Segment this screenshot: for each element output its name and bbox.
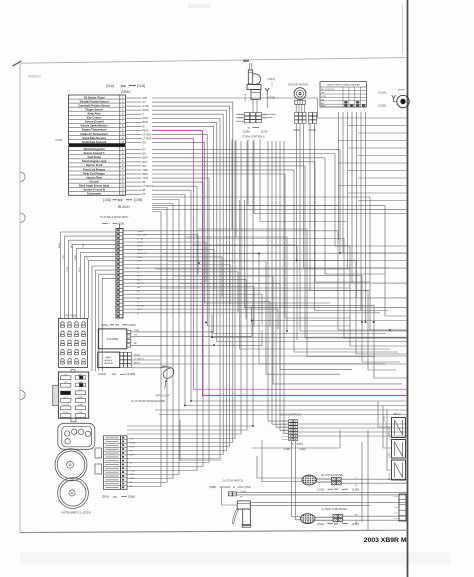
svg-text:[20A]: [20A] <box>102 495 109 499</box>
LH controls connector grid <box>289 420 293 423</box>
arrow down dashed <box>271 82 273 88</box>
svg-text:Y/BN: Y/BN <box>134 330 139 332</box>
ignition key body <box>247 85 261 90</box>
clutch lever barrel cap <box>242 525 251 528</box>
wire junction dot 16 <box>389 329 391 331</box>
wire LH controls right 1 <box>298 423 407 425</box>
svg-text:LT GN: LT GN <box>130 470 136 472</box>
wire junction dot 9 <box>339 252 341 254</box>
wire right block y163 <box>338 162 407 164</box>
svg-text:GY: GY <box>143 150 147 152</box>
bank angle sensor pin grid <box>120 352 124 356</box>
wire 30A strip left pin3 GY/O <box>69 240 117 318</box>
ignition switch wiring table <box>320 82 367 107</box>
wire 30A strip left pin5 W/BK <box>77 248 117 318</box>
wires ignition switch to grids <box>295 104 297 112</box>
svg-text:KEY SW: KEY SW <box>245 93 247 101</box>
wire black pin7 BE/O <box>126 173 142 175</box>
wire 30A strip left pin8 R/Y <box>89 261 117 319</box>
wire 30A strip left lower pin10 <box>95 270 116 371</box>
wire 30A strip left lower pin12 <box>102 278 116 371</box>
svg-text:TO FUSE & SWAP ARRY: TO FUSE & SWAP ARRY <box>100 216 129 219</box>
page right border faint inner line <box>402 4 404 54</box>
svg-text:R/GY: R/GY <box>79 266 81 272</box>
wire junction dot 7 <box>258 253 260 255</box>
wire gray pin5 Y <box>126 113 142 115</box>
svg-text:ANGLE: ANGLE <box>105 359 113 362</box>
cluster right tab 1 <box>95 448 102 458</box>
LT turn signal stem <box>315 516 333 518</box>
wire lower run b4 <box>257 456 302 478</box>
svg-text:GY: GY <box>143 102 147 104</box>
wire lower run b7 <box>296 441 301 520</box>
relay 3 box <box>392 460 406 480</box>
fuse panel left cell ACCY <box>61 398 71 402</box>
svg-text:Ground: Ground <box>90 179 100 183</box>
wire relay 2 feed <box>383 406 392 449</box>
wire junction dot 2 <box>205 322 207 324</box>
wire run below PCM long 1 <box>152 197 407 330</box>
wire nest vertical 4 to cluster <box>127 141 235 439</box>
cluster connector pin column <box>121 436 128 490</box>
wire black pin5 W/Y <box>126 165 142 167</box>
svg-text:[134B]: [134B] <box>127 372 135 376</box>
svg-text:Tachometer: Tachometer <box>87 192 101 196</box>
page bottom edge line <box>20 530 408 532</box>
flasher pins <box>127 330 131 333</box>
svg-text:[30B]: [30B] <box>129 323 136 327</box>
svg-text:Intake Air Temperature: Intake Air Temperature <box>80 132 108 136</box>
svg-text:GRAY: GRAY <box>121 90 132 94</box>
wire junction dot 1 <box>251 320 253 322</box>
relay lower strip labels <box>394 496 399 498</box>
svg-text:[22A]: [22A] <box>261 130 268 134</box>
wires into LH controls from left <box>268 141 289 421</box>
wire lower run b9 <box>361 442 363 522</box>
fuse panel right cell START <box>79 383 83 386</box>
wire nest vertical 3 to cluster <box>127 141 241 434</box>
RT turn signal connector blocks <box>331 477 336 480</box>
svg-text:Sensor Ground A: Sensor Ground A <box>84 151 105 155</box>
cluster indicator lamp 1 <box>65 431 70 436</box>
wire mesh run a4 <box>162 254 385 364</box>
wire right vertical x361 <box>360 112 362 310</box>
svg-text:>>: >> <box>118 197 124 202</box>
svg-text:[21B]: [21B] <box>352 487 359 491</box>
program wire pigtail loop <box>161 367 174 379</box>
svg-text:BK/W: BK/W <box>59 243 61 248</box>
wire lower run b6 <box>292 441 301 517</box>
ignition key top wires <box>249 63 251 70</box>
svg-text:BE/O: BE/O <box>143 174 149 176</box>
wire run y410 <box>155 409 407 411</box>
clutch lever pivot detail <box>237 502 250 504</box>
wire junction dot 10 <box>252 425 254 427</box>
wire nest vertical 1 to cluster <box>127 141 253 426</box>
punch hole arc 1 <box>21 172 26 181</box>
wire black pin11 BK <box>126 189 142 191</box>
svg-text:Injector Front: Injector Front <box>86 163 103 167</box>
svg-text:Throttle Position Sensor: Throttle Position Sensor <box>79 99 109 103</box>
wire junction dot 13 <box>190 400 192 402</box>
svg-text:#1 CYL/MAPP PROGRAM WIRE: #1 CYL/MAPP PROGRAM WIRE <box>131 400 165 403</box>
wire junction dot 3 <box>213 344 215 346</box>
wire junction dot 15 <box>373 321 375 323</box>
svg-text:RELAY: RELAY <box>394 413 402 416</box>
wire stub vertical x232 <box>231 140 233 230</box>
wire black pin4 BK/Y <box>126 161 142 163</box>
svg-text:INSTRUMENT CLUSTER: INSTRUMENT CLUSTER <box>61 511 91 515</box>
svg-text:BN/GY: BN/GY <box>71 241 73 248</box>
cluster indicator lamp 2 <box>72 429 77 434</box>
wire LT turn signal BN <box>343 515 407 517</box>
wire junction dot 11 <box>296 260 298 262</box>
svg-text:Rear Coil Primary: Rear Coil Primary <box>83 171 105 175</box>
svg-text:PARK: PARK <box>321 105 327 108</box>
svg-text:BK/W: BK/W <box>134 362 140 364</box>
svg-text:LIGHTS: LIGHTS <box>63 405 70 407</box>
svg-text:GY/BN: GY/BN <box>130 443 137 445</box>
svg-text:BK/Y: BK/Y <box>143 162 149 164</box>
ignition key lower housing <box>251 90 260 100</box>
wire clutch switch TN/GN <box>236 492 406 494</box>
wire right block y148 <box>348 147 407 149</box>
relay 1 box <box>392 418 406 438</box>
wire into clutch lever <box>222 487 238 505</box>
wire stubs out of RH grid right <box>262 113 276 115</box>
svg-text:KEY SW: KEY SW <box>389 472 391 480</box>
instrument cluster outer outline <box>58 423 95 449</box>
speedometer gauge inner ring <box>60 480 86 506</box>
svg-text:Camshaft Position Sensor: Camshaft Position Sensor <box>78 103 110 107</box>
svg-text:>>: >> <box>334 522 338 526</box>
svg-text:GY/O: GY/O <box>67 267 69 272</box>
wires below RH controls <box>248 140 338 206</box>
svg-text:W/BK: W/BK <box>75 254 77 260</box>
svg-text:Y/BK: Y/BK <box>83 243 85 248</box>
tachometer gauge inner ring <box>57 451 85 479</box>
svg-text:<: < <box>228 485 230 489</box>
wire LH controls right 4 <box>298 435 407 437</box>
page left edge line <box>19 63 21 533</box>
svg-text:LT GN/V: LT GN/V <box>143 134 152 136</box>
fuse panel top tab <box>71 370 75 372</box>
svg-text:Vehicle Speed Monitor: Vehicle Speed Monitor <box>81 124 108 128</box>
svg-text:LT GN/R: LT GN/R <box>143 138 152 140</box>
svg-text:2003 XB9R M: 2003 XB9R M <box>364 537 407 544</box>
wire black pin6 Y/BE <box>126 169 142 171</box>
svg-text:TN: TN <box>134 335 137 337</box>
svg-text:[31A]: [31A] <box>318 522 325 526</box>
wire mesh run a6 <box>174 276 402 384</box>
wire run y414.5 <box>159 414 407 416</box>
wire gray pin3 GY/W <box>126 105 142 107</box>
svg-text:Key Control: Key Control <box>87 116 102 120</box>
svg-text:Serial Data Transmit: Serial Data Transmit <box>82 140 107 144</box>
ignition switch terminal block <box>295 100 305 104</box>
svg-text:TO RH CONTROLS: TO RH CONTROLS <box>242 135 265 138</box>
svg-text:TN/GN: TN/GN <box>240 491 247 493</box>
svg-text:Sensor Ground: Sensor Ground <box>85 120 104 124</box>
svg-text:Keep Alive: Keep Alive <box>88 112 102 116</box>
cluster indicator lamp 4 <box>85 431 90 436</box>
ignition table cell marks <box>344 104 347 106</box>
wire bank angle W/GN <box>132 355 407 357</box>
wire mesh run a14 <box>240 200 390 349</box>
svg-text:HORN: HORN <box>398 89 405 91</box>
wire gray pin7 BN/O <box>126 121 142 123</box>
wire run below PCM 3 <box>127 208 167 483</box>
wire right block y185 <box>338 185 407 187</box>
svg-text:[22B]: [22B] <box>243 130 250 134</box>
wire relay 3 feed <box>387 410 392 470</box>
svg-text:[10A]: [10A] <box>103 198 111 202</box>
wire clutch lever right <box>250 501 406 503</box>
wire flasher pin4 BE <box>131 330 262 345</box>
page top edge line <box>21 58 407 64</box>
ignition connector grid 133B <box>308 112 312 115</box>
wire mesh run a10 <box>198 229 375 356</box>
svg-text:>>: >> <box>121 83 127 88</box>
svg-text:[21A]: [21A] <box>318 487 325 491</box>
PCM connector divider bar <box>69 144 126 147</box>
wire lower run b3 <box>252 430 340 448</box>
svg-text:P.FUEL: P.FUEL <box>63 412 69 414</box>
connector strip 30A outline <box>116 229 123 319</box>
wire run below PCM long 3 <box>152 209 407 211</box>
wire black pin8 Y/GN <box>126 177 142 179</box>
svg-text:KEY POSITION: KEY POSITION <box>321 89 334 91</box>
svg-text:Y/GN: Y/GN <box>63 255 65 260</box>
horn body <box>397 95 409 107</box>
svg-text:W/BN: W/BN <box>130 478 136 480</box>
connector arrow [41B] <box>102 222 108 224</box>
fuse panel left cell P.FUEL <box>61 414 71 418</box>
wire stubs into RH grid left <box>236 113 244 115</box>
instrument cluster lamp panel <box>62 426 92 447</box>
wire RT turn signal V <box>341 478 406 480</box>
fuse relay panel outline <box>58 372 88 418</box>
svg-text:[120B]: [120B] <box>378 104 386 108</box>
fuse panel left cell LIGHTS <box>61 406 71 410</box>
page top edge blob <box>243 60 249 62</box>
svg-text:(R) LT/TURN SIGNAL: (R) LT/TURN SIGNAL <box>321 474 344 477</box>
wire mesh run a11 <box>155 268 350 270</box>
wire junction dot 12 <box>184 405 186 407</box>
wire bank angle LT GN/GY <box>132 359 161 361</box>
LT rear turn signal bulb <box>300 514 315 524</box>
svg-text:[120A]: [120A] <box>378 90 386 94</box>
wire relay 1 feed <box>378 401 392 427</box>
ignition table rows <box>320 90 367 92</box>
relay lower strip <box>399 494 406 521</box>
wire right vertical x356 <box>356 112 358 298</box>
flasher box <box>98 329 127 349</box>
wire clutch switch BK <box>236 494 406 496</box>
svg-text:>>: >> <box>112 373 116 377</box>
svg-text:PK/GY: PK/GY <box>143 130 150 132</box>
wire right block y178 <box>358 177 407 179</box>
svg-text:[133B]: [133B] <box>309 128 317 132</box>
svg-text:<: < <box>248 126 250 130</box>
fuse panel bottom tab <box>71 418 76 422</box>
wire gray pin2 GY <box>126 101 142 103</box>
wire right block y133 <box>358 132 407 134</box>
svg-text:Y/GN: Y/GN <box>143 178 149 180</box>
RH controls connector grid 22 <box>244 113 250 116</box>
fuse panel right cell BRAKE <box>75 398 85 402</box>
clutch switch connector boxes <box>228 492 232 496</box>
svg-text:[39B]: [39B] <box>128 495 135 499</box>
LH controls pin labels left <box>282 420 289 422</box>
svg-text:IGNITION: IGNITION <box>389 428 391 437</box>
wire 30A strip left pin7 Y/BK <box>85 257 117 319</box>
svg-text:TOP VIEW: TOP VIEW <box>65 315 78 318</box>
fuse array fuse icons <box>61 322 64 325</box>
svg-text:OPTIO LOOP: OPTIO LOOP <box>156 396 171 398</box>
ignition key blade <box>248 70 252 84</box>
svg-text:LT GN/GY: LT GN/GY <box>143 186 154 188</box>
svg-text:LT GN/GY: LT GN/GY <box>134 358 144 360</box>
svg-text:Y/GN: Y/GN <box>130 447 135 449</box>
svg-text:BLACK: BLACK <box>118 205 130 209</box>
wire 30A strip left pin2 Y/GN <box>65 236 117 318</box>
svg-text:Engine Temperature: Engine Temperature <box>82 128 107 132</box>
wire right vertical x343 <box>342 112 344 253</box>
page corner fold mark <box>13 61 22 66</box>
fuse panel right cell HORN <box>75 406 85 410</box>
wire run below PCM 4 <box>127 212 161 487</box>
wire lower run b1 <box>180 420 222 460</box>
wire run below PCM 1 <box>127 200 179 475</box>
wire junction dot 14 <box>365 321 367 323</box>
wire right vertical x338 <box>338 112 340 240</box>
svg-text:O/W: O/W <box>130 439 134 441</box>
horn splice Y <box>392 95 396 98</box>
svg-text:BK: BK <box>143 182 147 184</box>
LT turn signal connector blocks <box>333 514 338 517</box>
svg-text:[41B]: [41B] <box>118 222 125 226</box>
wire TAN into loop <box>132 367 161 369</box>
svg-text:>>: >> <box>113 495 117 499</box>
wire 30A strip left pin4 BN/GY <box>73 244 117 318</box>
svg-text:O/W: O/W <box>263 118 267 120</box>
PCM black connector table outline <box>69 147 126 196</box>
wire lower run b5 <box>262 440 302 482</box>
fuse panel right cell ECM <box>75 391 85 395</box>
wire lower run b8 <box>367 430 369 530</box>
fuse panel left tab <box>53 385 59 405</box>
clutch lever perch body <box>237 501 250 509</box>
svg-text:V/BN: V/BN <box>130 474 135 476</box>
svg-text:[95A]: [95A] <box>245 485 252 489</box>
svg-text:>>: >> <box>334 488 338 492</box>
splice Y symbol <box>265 88 269 91</box>
svg-text:>: > <box>109 222 111 226</box>
wire mesh run a15 <box>244 200 406 308</box>
wire mesh run a12 <box>160 287 350 289</box>
wire flasher pin1 Y/BN <box>131 331 212 333</box>
wire nest vertical 2 to cluster <box>127 141 247 430</box>
fuse panel right cell BATT <box>79 376 83 379</box>
svg-text:Injector Rear: Injector Rear <box>86 175 102 179</box>
fuse array box <box>59 319 88 368</box>
punch hole arc 2 <box>21 213 26 222</box>
wire RT turn signal BK <box>341 482 406 484</box>
wire gray pin12 GN <box>126 142 142 144</box>
wire run below PCM long 2 <box>152 206 407 316</box>
svg-text:b0001xx: b0001xx <box>28 75 41 79</box>
wire bank angle BK/W <box>132 363 407 365</box>
clutch lever blade <box>232 508 238 523</box>
wire 30A strip left lower pin11 <box>99 274 116 371</box>
ignition table columns <box>342 87 344 107</box>
wire junction dot 8 <box>198 262 200 264</box>
svg-text:[30A]: [30A] <box>102 323 109 327</box>
wire gray pin1 W/B to horn area <box>126 97 142 99</box>
wire black pin1 GY switched ign <box>126 149 142 151</box>
svg-text:Switched Ignition: Switched Ignition <box>84 147 106 151</box>
wire right block y140 <box>338 140 407 142</box>
fuse panel left cell MAIN <box>60 391 70 395</box>
wire gray pin9 PK/GY magenta engine temp <box>126 129 142 131</box>
svg-text:BN/Y: BN/Y <box>143 158 149 160</box>
svg-text:START: START <box>388 451 391 458</box>
relay 2 box <box>392 440 406 459</box>
svg-text:BRAKE: BRAKE <box>78 396 85 399</box>
svg-text:[121A]: [121A] <box>268 77 276 81</box>
wire right vertical x365 <box>365 112 367 322</box>
wire black pin2 BN <box>126 153 142 155</box>
RT turn signal stem <box>317 478 332 480</box>
PCM gray connector table outline <box>69 95 126 144</box>
wire black pin3 BN/Y <box>126 157 142 159</box>
wire right block y155 <box>358 155 407 157</box>
speedometer hub <box>69 490 75 496</box>
wires key housing to RH connector <box>252 99 254 112</box>
svg-text:IGNITION SWITCH WIRING DIAGRA: IGNITION SWITCH WIRING DIAGRAM <box>327 84 361 87</box>
svg-text:O2 Sensor /Tune/: O2 Sensor /Tune/ <box>84 95 105 99</box>
punch hole arc 3 <box>21 390 26 399</box>
wire gray pin6 GN/O <box>126 117 142 119</box>
wire mesh run a13b <box>212 314 407 337</box>
wire 30A strip left pin6 R/GY <box>81 253 117 319</box>
svg-text:PK: PK <box>143 194 147 196</box>
ignition key bow flag <box>253 74 261 85</box>
wire black pin12 PK tach <box>126 193 142 195</box>
svg-text:BK/R: BK/R <box>239 118 244 120</box>
fuse panel right cell FAN <box>75 414 85 418</box>
svg-text:W/GN: W/GN <box>134 354 140 356</box>
svg-text:CLUTCH SWITCH: CLUTCH SWITCH <box>223 479 244 482</box>
wire junction dot 6 <box>211 336 213 338</box>
svg-text:BK: BK <box>143 190 147 192</box>
svg-text:[10B]: [10B] <box>134 198 142 202</box>
scan smudge bottom band <box>20 552 450 564</box>
svg-text:GN: GN <box>143 142 147 144</box>
svg-text:GY/O: GY/O <box>239 115 244 117</box>
cluster indicator lamp 5 <box>65 439 70 444</box>
wire right block y193 <box>348 192 407 194</box>
svg-text:FLASHER: FLASHER <box>107 338 119 341</box>
svg-text:W/B: W/B <box>143 98 148 100</box>
wire right block y200 <box>358 200 407 202</box>
wire right vertical x347 <box>347 112 349 268</box>
svg-text:W/Y: W/Y <box>143 166 148 168</box>
svg-text:GY/W: GY/W <box>143 106 150 108</box>
wire right vertical x352 <box>351 112 353 283</box>
wire mesh run a3b <box>252 306 407 321</box>
